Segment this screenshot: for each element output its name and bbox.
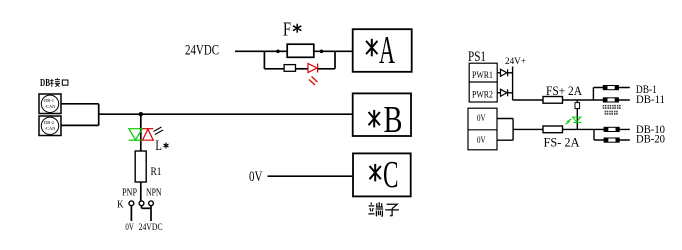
svg-text:DB-1: DB-1	[44, 98, 54, 103]
wire common to NPN horizontal	[142, 207, 152, 209]
LED green monitor	[573, 117, 582, 122]
junction dot right of fuse	[320, 50, 324, 54]
wire DB-1 branch horizontal	[593, 87, 629, 89]
wire 24VDC to box A	[235, 50, 353, 52]
svg-text:R1: R1	[151, 164, 162, 178]
DB connector socket 2 circle	[41, 117, 58, 134]
wire diode1 to vertical	[508, 72, 513, 74]
wire common circle down	[141, 206, 143, 209]
box A terminal	[353, 29, 412, 72]
fuse FS+ body	[543, 97, 563, 104]
glyph 口	[62, 80, 68, 85]
selector circle common	[139, 201, 144, 206]
wire DB-20 branch horizontal	[594, 139, 630, 141]
svg-text:K: K	[117, 199, 124, 211]
svg-text:PWR1: PWR1	[472, 70, 493, 80]
DB connector socket 2 box	[39, 116, 61, 136]
wire PNP circle to 0V	[130, 206, 132, 221]
svg-text:F: F	[283, 19, 291, 41]
svg-text:PNP: PNP	[122, 188, 137, 199]
wire 0V to box C	[268, 175, 354, 177]
connector terminal DB-20	[604, 138, 620, 143]
wire LED to right vertical	[318, 68, 335, 70]
resistor on monitor branch	[575, 103, 580, 109]
0V box	[468, 108, 497, 150]
wire FS+ rail	[513, 99, 630, 101]
LED red indicator diode	[308, 64, 318, 73]
svg-text:DB-20: DB-20	[636, 132, 665, 146]
svg-text:24VDC: 24VDC	[139, 223, 163, 233]
connector terminal DB-11	[603, 97, 619, 102]
selector circle NPN	[149, 201, 154, 206]
svg-text:B: B	[384, 99, 403, 141]
svg-text:A: A	[379, 28, 395, 71]
fuse FS- body	[543, 126, 563, 133]
diode D2	[501, 89, 508, 96]
wire R1 to selector	[140, 182, 142, 201]
svg-text:24VDC: 24VDC	[185, 42, 219, 58]
connector terminal DB-10	[604, 127, 620, 132]
DB connector socket 1 circle	[41, 95, 58, 112]
asterisk of box B	[369, 110, 380, 128]
wire PWR1 to diode 1	[497, 72, 500, 74]
label 端子 glyph 子	[385, 204, 399, 216]
PWR box	[469, 63, 497, 102]
selector circle PNP	[129, 201, 134, 206]
wire 0V bracket top	[497, 118, 513, 120]
wire 24V+ vertical bus	[512, 67, 514, 101]
svg-text:0V: 0V	[477, 136, 486, 146]
svg-text:-CAN: -CAN	[45, 126, 57, 131]
fuse F* body	[287, 44, 314, 57]
LED green emission arrows	[565, 119, 571, 125]
wire fuse bypass branch left vertical	[263, 51, 265, 69]
tiny label 短路棒 blob row2	[605, 111, 618, 115]
box B terminal	[353, 93, 411, 136]
glyph 接	[50, 78, 60, 87]
label 端子 glyph 端	[368, 202, 383, 216]
resistor in bypass branch	[284, 65, 295, 72]
svg-text:0V: 0V	[125, 223, 134, 233]
wire NPN circle to 24VDC	[150, 206, 152, 221]
svg-text:0V: 0V	[477, 114, 486, 124]
wire DB-20 branch vertical	[593, 129, 595, 140]
DB connector socket 1 box	[39, 94, 61, 114]
asterisk of box C	[370, 164, 381, 182]
svg-text:24V+: 24V+	[505, 57, 526, 67]
wire 0V bracket bottom	[497, 139, 513, 141]
wire resistor to LED	[296, 68, 309, 70]
svg-text:0V: 0V	[249, 169, 263, 185]
wire bypass right vertical	[334, 51, 336, 69]
svg-text:FS+ 2A: FS+ 2A	[546, 83, 583, 98]
LED L* red half (up)	[143, 129, 154, 141]
wire socket1 to bracket	[61, 103, 99, 105]
asterisk of box A	[366, 39, 377, 57]
connector terminal DB-1	[603, 85, 619, 90]
asterisk of F*	[293, 24, 301, 33]
diode D1	[501, 69, 508, 76]
wire bracket vertical	[98, 104, 100, 126]
asterisk of L*	[164, 143, 169, 149]
svg-text:-CAN: -CAN	[45, 104, 57, 109]
svg-text:DB: DB	[40, 77, 50, 89]
LED L* green half (down)	[129, 129, 143, 141]
box C terminal	[353, 153, 411, 196]
wire diode2 to vertical	[508, 92, 513, 94]
wire DB-1 branch vertical	[592, 88, 594, 101]
svg-text:DB-11: DB-11	[636, 92, 665, 106]
wire socket2 to bracket	[61, 124, 99, 126]
resistor R1 body	[135, 151, 146, 182]
svg-text:PS1: PS1	[468, 49, 486, 65]
wire bracket to box B	[99, 113, 353, 115]
0V box divider	[468, 129, 497, 131]
wire FS- rail	[513, 128, 630, 130]
LED L* emission arrows (black)	[154, 127, 164, 135]
svg-text:L: L	[155, 138, 162, 154]
junction dot left of fuse	[276, 50, 280, 54]
svg-text:PWR2: PWR2	[472, 90, 493, 100]
wire LED monitor vertical	[576, 100, 578, 129]
tiny label 电源设置 blob row1	[603, 105, 621, 109]
svg-text:C: C	[383, 154, 399, 196]
svg-text:NPN: NPN	[146, 188, 162, 199]
wire PWR2 to diode 2	[497, 92, 500, 94]
wire 0V bracket vertical	[512, 119, 514, 141]
svg-text:DB-2: DB-2	[44, 120, 54, 125]
junction node dot on B wire	[139, 112, 143, 116]
LED red emission arrows	[309, 77, 318, 86]
svg-text:FS- 2A: FS- 2A	[544, 134, 581, 149]
wire junction down to LED L*	[140, 114, 142, 151]
PWR box divider	[469, 81, 497, 83]
wire bypass bottom left segment	[264, 68, 284, 70]
